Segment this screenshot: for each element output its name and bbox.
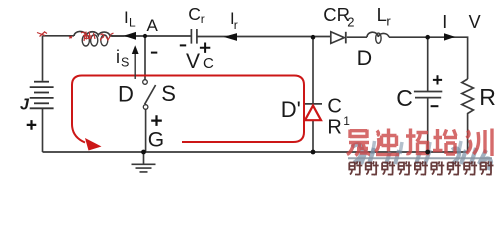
svg-text:G: G [148,129,164,152]
svg-text:r: r [386,14,391,29]
svg-text:I: I [442,12,447,32]
svg-text:C: C [203,55,214,72]
svg-text:C: C [188,4,201,24]
svg-text:R: R [479,84,496,110]
svg-text:V: V [469,12,481,32]
svg-text:r: r [201,12,205,26]
svg-text:D: D [357,46,373,70]
svg-text:A: A [147,16,159,35]
svg-text:S: S [161,81,176,106]
svg-text:R: R [327,116,341,138]
svg-text:D: D [118,82,134,107]
svg-text:2: 2 [347,15,354,30]
svg-text:r: r [234,18,238,32]
svg-text:L: L [377,4,387,25]
svg-text:C: C [396,85,413,111]
svg-text:L: L [129,16,136,30]
svg-text:C: C [327,95,341,117]
svg-text:S: S [121,55,129,69]
svg-text:1: 1 [343,114,350,128]
svg-text:i: i [116,47,120,67]
svg-text:J: J [20,97,30,114]
svg-text:CR: CR [323,4,350,25]
svg-text:D': D' [281,97,301,122]
svg-text:V: V [186,50,200,73]
